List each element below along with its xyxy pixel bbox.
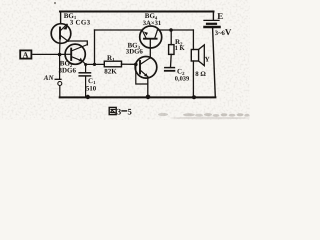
svg-text:3A×31: 3A×31 bbox=[143, 20, 161, 27]
svg-text:3: 3 bbox=[117, 106, 121, 116]
svg-text:3DG6: 3DG6 bbox=[126, 48, 144, 55]
svg-text:510: 510 bbox=[86, 86, 97, 93]
svg-text:8 Ω: 8 Ω bbox=[195, 71, 206, 78]
svg-text:0,039: 0,039 bbox=[175, 75, 189, 82]
svg-text:3DG6: 3DG6 bbox=[59, 67, 77, 75]
svg-text:3 CG3: 3 CG3 bbox=[70, 19, 91, 27]
svg-text:A: A bbox=[23, 51, 29, 60]
svg-text:5: 5 bbox=[128, 106, 132, 116]
svg-text:E: E bbox=[217, 11, 223, 21]
svg-text:Y: Y bbox=[205, 56, 210, 64]
svg-text:1 K: 1 K bbox=[175, 45, 186, 52]
svg-text:AN: AN bbox=[43, 74, 55, 82]
svg-text:82K: 82K bbox=[104, 68, 117, 76]
